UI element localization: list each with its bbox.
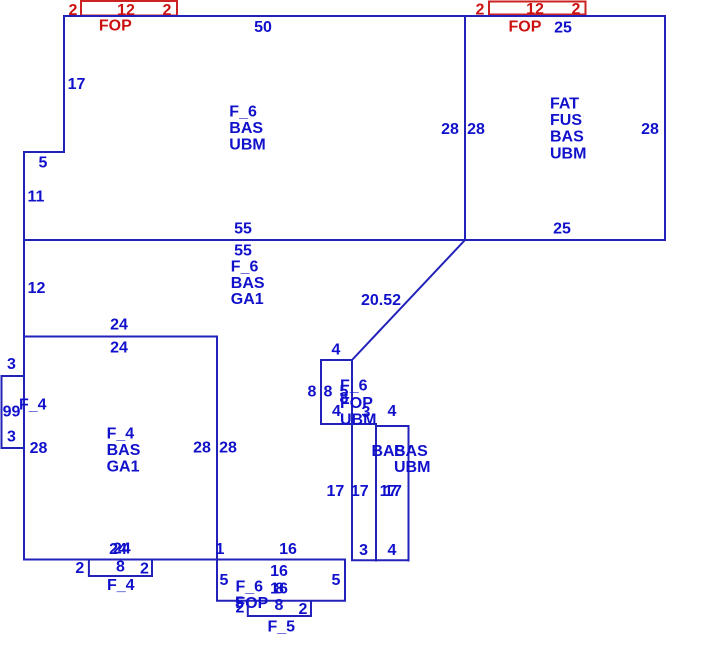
svg-text:28: 28 [641,121,659,138]
svg-text:4: 4 [388,542,397,559]
svg-text:2: 2 [163,2,172,19]
svg-text:17: 17 [351,483,369,500]
svg-text:4: 4 [332,342,341,359]
svg-text:17: 17 [327,483,345,500]
svg-text:3: 3 [362,404,371,421]
svg-text:28: 28 [30,440,48,457]
svg-text:17: 17 [68,76,86,93]
svg-text:50: 50 [254,19,272,36]
svg-text:3: 3 [359,542,368,559]
svg-text:2: 2 [69,2,78,19]
svg-text:20.52: 20.52 [361,292,401,309]
svg-text:12: 12 [117,2,135,19]
svg-text:5: 5 [220,572,229,589]
svg-text:55: 55 [234,243,252,260]
svg-text:BAS: BAS [394,443,428,460]
svg-text:16: 16 [279,541,297,558]
svg-text:8: 8 [275,581,284,598]
svg-text:16: 16 [270,563,288,580]
svg-text:8: 8 [324,384,333,401]
svg-text:12: 12 [526,1,544,18]
svg-text:55: 55 [234,221,252,238]
svg-text:UBM: UBM [229,137,265,154]
svg-text:GA1: GA1 [231,291,264,308]
svg-text:F_5: F_5 [268,619,296,636]
svg-text:2: 2 [299,601,308,618]
svg-text:5: 5 [39,155,48,172]
svg-text:2: 2 [476,2,485,19]
svg-text:24: 24 [113,541,131,558]
svg-text:1: 1 [216,541,225,558]
svg-text:GA1: GA1 [107,459,140,476]
svg-text:FOP: FOP [235,595,268,612]
svg-text:8: 8 [116,559,125,576]
svg-text:8: 8 [275,597,284,614]
svg-text:BAS: BAS [229,120,263,137]
svg-text:2: 2 [572,1,581,18]
svg-text:25: 25 [554,20,572,37]
svg-text:24: 24 [110,317,128,334]
svg-text:99: 99 [3,403,21,420]
svg-text:24: 24 [110,339,128,356]
svg-text:F_6: F_6 [236,578,264,595]
svg-text:28: 28 [219,440,237,457]
svg-text:2: 2 [75,560,84,577]
svg-text:BAS: BAS [231,275,265,292]
svg-text:UBM: UBM [550,145,586,162]
svg-text:BAS: BAS [550,129,584,146]
svg-text:17: 17 [384,483,402,500]
svg-text:FAT: FAT [550,96,579,113]
svg-text:28: 28 [441,121,459,138]
svg-text:12: 12 [28,280,46,297]
svg-text:FUS: FUS [550,112,582,129]
svg-text:F_4: F_4 [19,397,47,414]
svg-text:28: 28 [467,121,485,138]
svg-text:FOP: FOP [99,18,132,35]
svg-text:FOP: FOP [509,19,542,36]
svg-text:BAS: BAS [107,442,141,459]
svg-text:F_6: F_6 [229,104,257,121]
svg-text:2: 2 [140,561,149,578]
svg-text:25: 25 [553,221,571,238]
svg-text:11: 11 [28,189,45,206]
svg-text:UBM: UBM [340,412,376,429]
svg-text:4: 4 [388,403,397,420]
svg-text:UBM: UBM [394,459,430,476]
svg-text:F_4: F_4 [107,426,135,443]
svg-text:5: 5 [332,572,341,589]
svg-text:F_4: F_4 [107,577,135,594]
svg-text:4: 4 [332,403,341,420]
svg-text:28: 28 [193,440,211,457]
svg-text:3: 3 [7,428,16,445]
svg-text:8: 8 [308,384,317,401]
svg-text:F_6: F_6 [231,259,259,276]
svg-text:3: 3 [7,356,16,373]
